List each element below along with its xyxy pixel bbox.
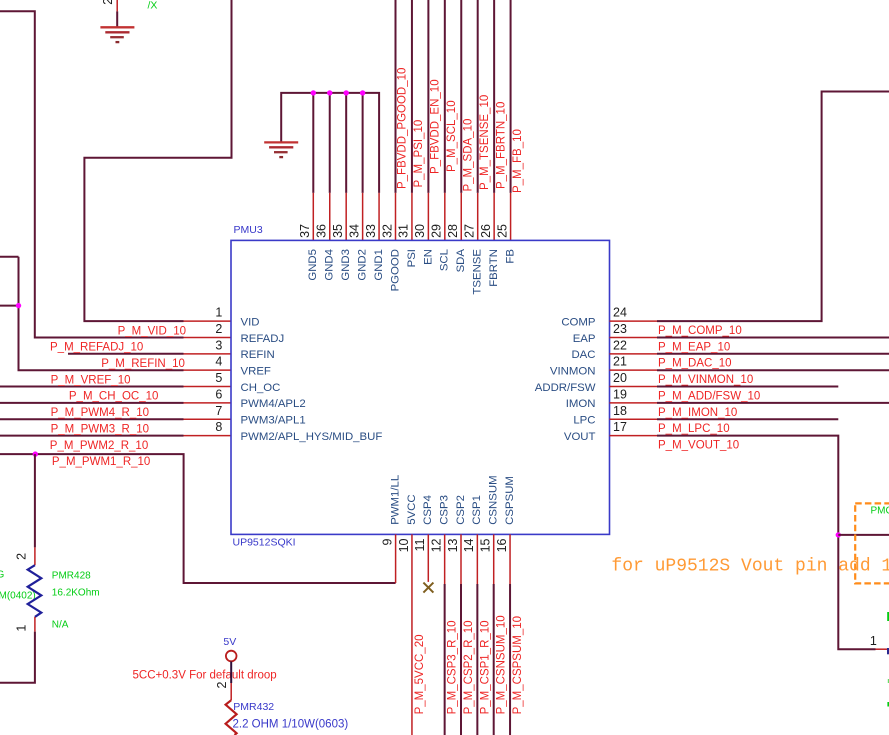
svg-text:TSENSE: TSENSE (472, 249, 484, 295)
node junction GND bus pin 34 (360, 90, 365, 95)
svg-text:1: 1 (870, 634, 877, 648)
wire: PWM3 (pin 7) (0, 418, 184, 420)
svg-text:P_FBVDD_PGOOD_10: P_FBVDD_PGOOD_10 (397, 68, 409, 189)
wire: pin 13 net to bottom edge (460, 584, 462, 735)
wire: PWM1 net to pin 9 detour (0, 454, 396, 583)
svg-text:29: 29 (430, 224, 444, 238)
svg-text:P_M_COMP_10: P_M_COMP_10 (658, 325, 742, 337)
wire: GND pin 35 drop (345, 93, 347, 193)
ground G2 (264, 142, 298, 157)
dashed part outline PMC (orange) (855, 503, 889, 583)
svg-text:REFIN: REFIN (241, 349, 275, 361)
svg-text:P_M_PWM1_R_10: P_M_PWM1_R_10 (52, 456, 150, 468)
svg-text:PWM3/APL1: PWM3/APL1 (241, 415, 306, 427)
wire: pin 25 to top edge (510, 0, 512, 193)
wire: ADDR/FSW row stub (657, 386, 838, 388)
wire: DAC row to right edge (657, 353, 889, 355)
pin 29 lead (top) (444, 193, 446, 241)
wire: VOUT branch to right edge (838, 534, 889, 536)
svg-text:PMC6: PMC6 (871, 506, 889, 517)
wire: pin 26 to top edge (493, 0, 495, 193)
svg-text:P_FBVDD_EN_10: P_FBVDD_EN_10 (430, 79, 442, 174)
svg-text:P_M_REFIN_10: P_M_REFIN_10 (101, 358, 185, 370)
pin 12 lead (bottom) (444, 534, 446, 584)
svg-text:COMP: COMP (561, 316, 595, 328)
wire: top vertical x=231.5 down, left, down to VID (pin 1) (84, 0, 231, 321)
svg-text:FB: FB (504, 249, 516, 264)
pin 9 lead (bottom) (395, 534, 397, 583)
wire: 5VCC pin 10 to bottom edge (411, 534, 413, 735)
svg-text:PWM2/APL_HYS/MID_BUF: PWM2/APL_HYS/MID_BUF (241, 431, 383, 443)
resistor PMR428 pin 2 lead (34, 547, 36, 565)
svg-text:FBRTN: FBRTN (488, 249, 500, 287)
node junction GND bus pin 36 (327, 90, 332, 95)
svg-text:CH_OC: CH_OC (241, 382, 281, 394)
resistor PMR428 pin 1 lead (34, 617, 36, 632)
pin 15 lead (bottom) (493, 534, 495, 584)
svg-text:20: 20 (613, 371, 627, 385)
wire: junction down to PMR428 (34, 454, 36, 547)
svg-text:P_M_SCL_10: P_M_SCL_10 (446, 100, 458, 172)
svg-text:P_M_TSENSE_10: P_M_TSENSE_10 (479, 95, 491, 190)
pin 35 lead (top) (345, 193, 347, 241)
wire: PWM4 (pin 6) (0, 402, 184, 404)
svg-text:P_M_ADD/FSW_10: P_M_ADD/FSW_10 (658, 390, 760, 402)
svg-text:30: 30 (413, 224, 427, 238)
svg-text:22: 22 (613, 338, 627, 352)
svg-text:28: 28 (446, 224, 460, 238)
svg-text:P_M_CSP1_R_10: P_M_CSP1_R_10 (479, 620, 491, 714)
pin 5 lead (184, 386, 232, 388)
svg-text:4: 4 (215, 355, 222, 369)
wire: pin 27 to top edge (477, 0, 479, 193)
svg-text:15: 15 (479, 538, 493, 552)
svg-text:PMU3: PMU3 (234, 224, 263, 236)
wire: 5V to PMR432 (230, 662, 232, 684)
svg-text:2: 2 (215, 682, 229, 689)
svg-text:PMR432: PMR432 (233, 701, 274, 713)
svg-text:P_M_IMON_10: P_M_IMON_10 (658, 407, 737, 419)
svg-text:1: 1 (15, 625, 29, 632)
svg-text:PMR428: PMR428 (52, 570, 91, 581)
svg-text:IMON: IMON (566, 398, 596, 410)
pin 2 lead (184, 336, 232, 338)
pin 28 lead (top) (460, 193, 462, 241)
svg-text:CSP3: CSP3 (439, 495, 451, 525)
wire: VINMON row to right edge (657, 369, 889, 371)
wire: REFIN stub (pin 3) (68, 353, 184, 355)
pin 27 lead (top) (477, 193, 479, 241)
wire: pin 32 to top edge (395, 0, 397, 193)
wire: pin 30 to top edge (427, 0, 429, 193)
resistor PMR432 pin 2 lead (230, 683, 232, 700)
wire: left edge stub y=256.7 (0, 256, 19, 258)
wire: GND pin 34 drop (362, 93, 364, 193)
pin 25 lead (top) (510, 193, 512, 241)
svg-text:13: 13 (446, 538, 460, 552)
svg-text:P_M_LPC_10: P_M_LPC_10 (658, 423, 730, 435)
pin 23 lead (right) (610, 336, 658, 338)
wire: PWM2 (pin 8) (0, 435, 184, 437)
svg-text:2: 2 (215, 322, 222, 336)
svg-text:P_M_DAC_10: P_M_DAC_10 (658, 358, 732, 370)
wire stem to ground G1 (116, 11, 118, 27)
svg-text:36: 36 (315, 224, 329, 238)
green fragment right edge y=679 (888, 679, 889, 683)
svg-text:8: 8 (215, 420, 222, 434)
svg-text:CSP2: CSP2 (455, 495, 467, 525)
svg-text:VID: VID (241, 316, 260, 328)
svg-text:1: 1 (215, 306, 222, 320)
svg-text:GND2: GND2 (357, 249, 369, 281)
pin 4 lead (184, 369, 232, 371)
svg-text:REFADJ: REFADJ (241, 333, 285, 345)
svg-text:N/A: N/A (52, 620, 69, 631)
svg-text:2: 2 (15, 553, 29, 560)
svg-text:CSPSUM: CSPSUM (504, 476, 516, 525)
svg-text:11: 11 (413, 538, 427, 551)
svg-text:21: 21 (613, 355, 627, 369)
svg-text:PWM1/LL: PWM1/LL (390, 475, 402, 525)
svg-text:P_M_VOUT_10: P_M_VOUT_10 (658, 440, 739, 452)
svg-text:9: 9 (380, 538, 394, 545)
svg-text:LPC: LPC (573, 415, 595, 427)
svg-text:14: 14 (462, 538, 476, 552)
svg-text:ADDR/FSW: ADDR/FSW (535, 382, 596, 394)
pin 3 lead (184, 353, 232, 355)
svg-text:G: G (0, 570, 5, 581)
pin 17 lead (right) (610, 435, 658, 437)
svg-text:P_M_5VCC_20: P_M_5VCC_20 (414, 634, 426, 714)
pin 19 lead (right) (610, 402, 658, 404)
component body edge at right margin (887, 648, 889, 654)
pin 32 lead (top) (395, 193, 397, 241)
svg-text:P_M_CSNSUM_10: P_M_CSNSUM_10 (496, 615, 508, 714)
wire: IMON row to right edge (657, 402, 889, 404)
svg-text:for uP9512S Vout pin add 10: for uP9512S Vout pin add 10 (611, 556, 889, 576)
svg-text:CSP1: CSP1 (471, 495, 483, 525)
svg-text:24: 24 (613, 306, 627, 320)
svg-text:P_M_CSP2_R_10: P_M_CSP2_R_10 (463, 620, 475, 714)
svg-text:16: 16 (495, 538, 509, 552)
pin 14 lead (bottom) (476, 534, 478, 584)
svg-text:25: 25 (495, 224, 509, 238)
pin 13 lead (bottom) (460, 534, 462, 584)
node junction at (18.5,305.6) (16, 303, 21, 308)
pin 6 lead (184, 402, 232, 404)
svg-text:UP9512SQKI: UP9512SQKI (233, 537, 296, 549)
svg-text:P_M_PSI_10: P_M_PSI_10 (413, 120, 425, 188)
svg-text:P_M_VID_10: P_M_VID_10 (118, 325, 186, 337)
svg-text:CSP4: CSP4 (422, 495, 434, 525)
svg-text:31: 31 (397, 224, 411, 238)
pin 21 lead (right) (610, 369, 658, 371)
svg-text:17: 17 (613, 420, 627, 434)
svg-text:PSI: PSI (406, 249, 418, 267)
pin 26 lead (top) (493, 193, 495, 241)
svg-text:18: 18 (613, 404, 627, 418)
wire: EAP row to right edge (657, 337, 889, 339)
svg-text:32: 32 (380, 224, 394, 238)
wire: pin 16 net to bottom edge (509, 584, 511, 735)
svg-text:P_M_PWM3_R_10: P_M_PWM3_R_10 (51, 423, 149, 435)
resistor PMR432 body (red zigzag) (226, 700, 237, 735)
svg-text:SDA: SDA (455, 249, 467, 273)
svg-text:GND4: GND4 (324, 249, 336, 281)
wire: PMR428 bottom to left edge (0, 632, 35, 683)
svg-text:6: 6 (215, 387, 222, 401)
svg-text:CSNSUM: CSNSUM (488, 475, 500, 524)
pin 8 lead (184, 435, 232, 437)
svg-text:P_M_VINMON_10: P_M_VINMON_10 (658, 374, 753, 386)
svg-text:27: 27 (463, 224, 477, 238)
node junction at (838.3,534.9) (836, 532, 841, 537)
svg-text:GND3: GND3 (340, 249, 352, 281)
svg-text:EAP: EAP (573, 333, 596, 345)
svg-text:7: 7 (215, 404, 222, 418)
svg-text:19: 19 (613, 387, 627, 401)
svg-text:VREF: VREF (241, 365, 271, 377)
svg-text:P_M_FBRTN_10: P_M_FBRTN_10 (495, 102, 507, 189)
svg-text:P_M_PWM2_R_10: P_M_PWM2_R_10 (50, 440, 148, 452)
svg-text:10: 10 (397, 538, 411, 552)
svg-text:5: 5 (215, 371, 222, 385)
wire: GND bus with ground G2 (281, 93, 379, 193)
svg-text:P_M_REFADJ_10: P_M_REFADJ_10 (50, 342, 143, 354)
wire: pin 14 net to bottom edge (476, 584, 478, 735)
svg-text:P_M_PWM4_R_10: P_M_PWM4_R_10 (51, 407, 149, 419)
wire: GND pin 37 drop (312, 93, 314, 193)
wire: CH_OC (pin 5) (0, 386, 184, 388)
svg-text:VINMON: VINMON (550, 365, 596, 377)
pin lead (red) into ground G1 (116, 0, 118, 11)
svg-text:GND1: GND1 (373, 249, 385, 281)
svg-text:37: 37 (298, 224, 312, 238)
svg-text:P_M_EAP_10: P_M_EAP_10 (658, 341, 730, 353)
svg-text:GND5: GND5 (307, 249, 319, 281)
svg-text:M(0402): M(0402) (0, 591, 36, 602)
svg-text:2.2 OHM 1/10W(0603): 2.2 OHM 1/10W(0603) (233, 718, 349, 730)
wire: pin 15 net to bottom edge (493, 584, 495, 735)
svg-text:VOUT: VOUT (564, 431, 596, 443)
green fragment right edge y=612 (887, 612, 889, 621)
pin 24 lead (right) (610, 320, 658, 322)
svg-text:5CC+0.3V For default droop: 5CC+0.3V For default droop (133, 670, 277, 682)
wire: pin 28 to top edge (460, 0, 462, 193)
svg-text:5V: 5V (223, 636, 236, 648)
svg-text:P_M_CSP3_R_10: P_M_CSP3_R_10 (447, 620, 459, 714)
pin 34 lead (top) (362, 193, 364, 241)
svg-text:34: 34 (347, 224, 361, 238)
wire: left edge stub y=305.6 (0, 305, 19, 307)
svg-text:33: 33 (364, 224, 378, 238)
svg-text:PGOOD: PGOOD (389, 249, 401, 291)
wire: pin 12 net to bottom edge (444, 584, 446, 735)
svg-text:23: 23 (613, 322, 627, 336)
pin 37 lead (top) (312, 193, 314, 241)
svg-text:SCL: SCL (439, 249, 451, 271)
wire: vertical feeding VREF (pin 4) (19, 257, 184, 371)
svg-text:5VCC: 5VCC (406, 494, 418, 524)
svg-text:16.2KOhm: 16.2KOhm (52, 588, 100, 599)
op-amp/controller U-PMU3 body outline (231, 240, 610, 534)
svg-text:35: 35 (331, 224, 345, 238)
svg-text:DAC: DAC (571, 349, 595, 361)
svg-text:/X: /X (148, 0, 158, 12)
wire: pin 31 to top edge (411, 0, 413, 193)
svg-text:P_M_CSPSUM_10: P_M_CSPSUM_10 (512, 616, 524, 714)
pin 22 lead (right) (610, 353, 658, 355)
pin 20 lead (right) (610, 386, 658, 388)
node junction GND bus pin 35 (343, 90, 348, 95)
svg-text:P_M_SDA_10: P_M_SDA_10 (462, 119, 474, 192)
wire: top-left corner to REFADJ (pin 2) (0, 11, 184, 337)
wire: pin 29 to top edge (444, 0, 446, 193)
no-connect X on pin 11 (423, 583, 433, 593)
pin 30 lead (top) (427, 193, 429, 241)
svg-text:3: 3 (215, 338, 222, 352)
node junction at (35.3,454.1) (33, 451, 38, 456)
pin 36 lead (top) (329, 193, 331, 241)
svg-text:P_M_CH_OC_10: P_M_CH_OC_10 (69, 391, 158, 403)
node junction GND bus pin 37 (311, 90, 316, 95)
pin 16 lead (bottom) (509, 534, 511, 584)
pin 31 lead (top) (411, 193, 413, 241)
green fragment right edge y=702 (887, 702, 889, 707)
pin 7 lead (184, 418, 232, 420)
pin 1 lead of off-page component (bottom right) (876, 648, 889, 650)
wire: LPC row stub (657, 418, 838, 420)
pin 33 lead (top) (378, 193, 380, 241)
wire: VOUT net down right side (657, 436, 876, 650)
pin 18 lead (right) (610, 418, 658, 420)
ground G1 (top-left) (100, 27, 134, 42)
svg-text:PWM4/APL2: PWM4/APL2 (241, 398, 306, 410)
svg-text:P_M_VREF_10: P_M_VREF_10 (51, 374, 131, 386)
svg-text:EN: EN (422, 249, 434, 265)
svg-text:P_M_FB_10: P_M_FB_10 (512, 129, 524, 193)
wire: GND pin 36 drop (329, 93, 331, 193)
pin 1 lead (184, 320, 232, 322)
pin 11 lead with no-connect (427, 534, 429, 582)
wire: COMP (pin 24) up and to right edge (657, 92, 889, 322)
svg-text:26: 26 (479, 224, 493, 238)
svg-text:2: 2 (101, 0, 115, 5)
resistor PMR428 body (blue zigzag) (28, 565, 42, 617)
svg-text:12: 12 (429, 538, 443, 552)
